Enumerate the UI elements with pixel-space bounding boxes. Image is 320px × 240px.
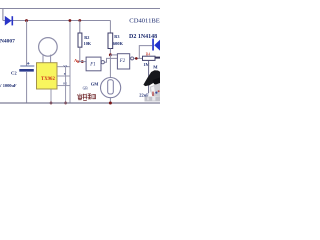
svg-text:600K: 600K [113,41,124,46]
photoresistor GM [101,78,121,98]
svg-text:CD4011BE: CD4011BE [129,17,160,24]
wire R2 lower lead [79,47,81,61]
node A junction [81,60,84,63]
wire GM lower lead [109,98,111,103]
wire GM upper lead [109,55,111,78]
wire R3 upper lead [109,21,111,34]
wire bottom ground rail [0,102,160,104]
wire socket pin 3 stub [57,85,70,87]
lamp bulb glass [39,38,58,57]
svg-text:R2: R2 [84,35,89,40]
svg-text:F2: F2 [119,59,126,64]
svg-text:TX962: TX962 [41,77,55,82]
gate F2 [117,54,133,69]
wire F2 output [134,57,143,59]
resistor R2 [78,33,82,47]
photo fragment dark wedge [143,70,160,86]
op-amp gate F1 [86,57,104,71]
wire pin1 ground drop [65,67,67,103]
svg-text:10K: 10K [84,41,92,46]
capacitor C2 [19,62,34,72]
node GM ground junction [109,102,112,105]
node pin1 ground junction [64,102,67,105]
wire R3 lower lead [109,49,111,56]
wire R4 right continuation [155,57,160,59]
diode D2 [152,39,161,52]
wire C2 upper lead [26,21,28,67]
svg-text:GB: GB [83,86,89,90]
wire socket bottom pin [50,89,52,103]
svg-text:F1: F1 [89,63,95,68]
wire junction to F2 input [110,54,117,56]
wire A to F1 input [79,61,87,63]
svg-text:GM: GM [91,81,99,86]
node mid vertical top [69,19,72,22]
lamp socket TX962 [37,63,58,89]
wire socket pin 1 [57,66,70,68]
wire mid vertical [69,21,71,104]
node R2 branch top [78,19,81,22]
wire diode row rail [3,20,111,22]
diode D1 1N4007 [5,16,13,26]
node R3 GM junction [109,53,112,56]
wire socket pin 2 [57,75,70,77]
node socket bottom junction [50,102,53,105]
resistor R4 [143,56,156,60]
svg-text:R3: R3 [114,34,119,39]
wire D2 branch corner [139,46,152,59]
wire F1 output to F2 input [104,58,117,62]
node F2 output junction [135,57,138,60]
label photoresistor red glyphs [77,94,95,101]
photo fragment light body [145,83,161,101]
svg-text:1N4007: 1N4007 [0,39,15,45]
svg-text:R4: R4 [146,51,151,56]
wire 22uF lead [148,61,150,93]
svg-text:V 1000uF: V 1000uF [0,83,17,88]
wire top supply rail [0,8,160,10]
wire lamp legs [43,55,51,64]
resistor R3 [108,33,113,49]
svg-text:M: M [153,64,158,69]
svg-text:C2: C2 [11,71,17,76]
wire left vertical [2,9,4,21]
wire R2 upper lead [79,21,81,34]
node A arrow [77,60,80,63]
node junction C2 tap [25,19,28,22]
wire C2 lower lead [26,72,28,103]
